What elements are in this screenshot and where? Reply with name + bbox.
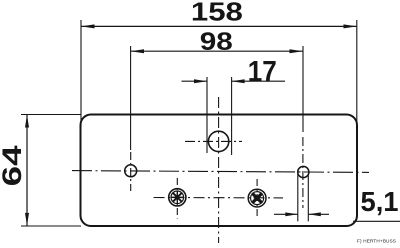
left screw recess star xyxy=(173,193,182,202)
dimension 17 left extension line xyxy=(206,77,208,153)
dimension 158 left arrow xyxy=(81,24,95,28)
lamp body outline xyxy=(81,115,358,227)
dimension 17 left leader with arrow xyxy=(182,80,207,82)
small holes horizontal centerline xyxy=(72,171,369,173)
dimension 64 bottom extension line xyxy=(21,225,81,227)
svg-text:64: 64 xyxy=(0,145,27,186)
dimension 158 right extension line xyxy=(356,20,358,127)
left screw vertical centerline xyxy=(176,178,178,219)
dimension 64 line xyxy=(26,115,28,226)
svg-text:17: 17 xyxy=(248,56,277,88)
dimension 17 right extension line xyxy=(231,77,233,155)
right small hole xyxy=(298,166,309,177)
svg-text:F) HERTH+BUSS: F) HERTH+BUSS xyxy=(357,239,396,244)
dimension 98 right arrow xyxy=(290,49,304,53)
left screw head outer circle xyxy=(169,189,186,206)
left screw head inner circle xyxy=(171,191,184,204)
dimension 5,1 right leader with arrow xyxy=(308,213,329,215)
right screw head inner circle xyxy=(251,192,264,205)
dimension 64 top extension line xyxy=(21,114,81,116)
dimension 158 right arrow xyxy=(344,24,358,28)
dimension 98 left extension line xyxy=(130,46,132,150)
dimension 158 left extension line xyxy=(80,20,82,127)
dimension 17 right leader with arrow xyxy=(232,80,285,82)
left small hole vertical centerline tail xyxy=(130,152,132,191)
svg-text:158: 158 xyxy=(191,0,243,27)
right screw head outer circle xyxy=(248,189,266,207)
part vertical centerline xyxy=(218,97,220,243)
dimension 5,1 leader line under label xyxy=(353,220,400,222)
left small hole xyxy=(125,165,137,177)
dimension 5,1 right extension line xyxy=(307,174,309,221)
dimension 98 right extension line xyxy=(302,46,304,132)
screws horizontal centerline xyxy=(154,197,284,199)
dimension 98 left arrow xyxy=(131,49,144,53)
right screw pozidriv recess xyxy=(253,194,261,202)
svg-text:5,1: 5,1 xyxy=(361,186,399,217)
top mounting hole xyxy=(208,131,228,151)
dimension 64 top arrow xyxy=(25,115,29,128)
right screw vertical centerline xyxy=(256,179,258,217)
right small hole vertical centerline xyxy=(302,137,304,208)
dimension 64 bottom arrow xyxy=(25,213,29,226)
dimension 5,1 left extension line xyxy=(297,174,299,221)
dimension 98 line xyxy=(131,50,303,52)
dimension 5,1 left leader with arrow xyxy=(274,213,298,215)
dimension 158 line xyxy=(81,25,357,27)
top hole horizontal centerline xyxy=(185,140,242,142)
